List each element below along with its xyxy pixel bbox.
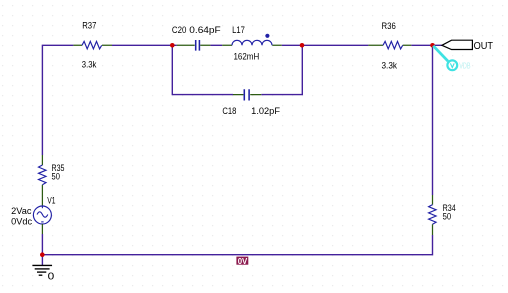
wire: V1 bottom to node D [41,234,43,255]
svg-text:3.3k: 3.3k [382,60,398,70]
junction node D [40,252,45,257]
svg-text:V1: V1 [47,196,55,206]
svg-text:50: 50 [52,172,60,182]
wire: top rail between R37 and node A [112,44,172,46]
svg-text:C18: C18 [222,106,236,116]
svg-text:3.3k: 3.3k [82,60,97,70]
resistor R34 [429,205,437,225]
resistor R37 pins [73,44,112,46]
svg-text:C20: C20 [172,25,187,35]
capacitor C20 [196,40,200,51]
wire: node A to C20 left pin [172,44,177,46]
wire: left rail top corner to R37 left pin [42,45,73,155]
junction node A [170,43,175,48]
resistor R35 [39,165,47,185]
svg-text:R37: R37 [82,21,96,31]
wire: node B to R36 left pin [302,44,368,46]
svg-text:1.02pF: 1.02pF [251,106,280,116]
svg-text:OUT: OUT [474,41,493,52]
svg-text:0: 0 [48,272,55,283]
wire: between C20 and L17 [210,44,222,46]
probe VDB marker [433,46,470,71]
resistor R35 pins [41,155,43,206]
junction node B [300,43,305,48]
resistor R37 [82,41,102,49]
svg-text:0.64pF: 0.64pF [189,25,221,35]
wire: R36 right pin to node C [411,44,432,46]
inductor L17 [232,40,272,45]
svg-text:0V: 0V [238,256,248,266]
svg-text:50: 50 [443,212,452,222]
bias label 0V [236,256,248,266]
wire: C18 right pin up to node B [261,45,302,94]
source V1 [33,206,51,224]
wire: right rail node C down to R34 [432,45,434,195]
polarity dot of L17 [265,34,269,38]
svg-text:0Vdc: 0Vdc [11,216,32,226]
wire: L17 right pin to node B [282,44,303,46]
svg-text:L17: L17 [232,25,245,35]
capacitor C20 pins [177,44,211,46]
svg-text:VDB: VDB [459,61,470,70]
resistor R36 pins [368,44,411,46]
port OUT [442,40,473,49]
svg-text:R36: R36 [382,21,396,31]
junction node C [430,43,435,48]
svg-text:162mH: 162mH [234,51,260,61]
resistor R34 pins [432,195,434,235]
ground 0 [32,265,54,282]
wire: node A down and right to C18 left pin [172,45,233,94]
pin V1 bottom [41,224,43,234]
wire: R34 bottom to bottom rail to node D [42,235,432,255]
resistor R36 [383,41,403,49]
capacitor C18 [244,89,249,100]
wire: node D to ground [41,255,43,265]
capacitor C18 pins [233,94,261,96]
wire: node C to OUT port [433,44,442,46]
svg-text:2Vac: 2Vac [11,206,32,216]
inductor L17 pins [222,44,282,46]
